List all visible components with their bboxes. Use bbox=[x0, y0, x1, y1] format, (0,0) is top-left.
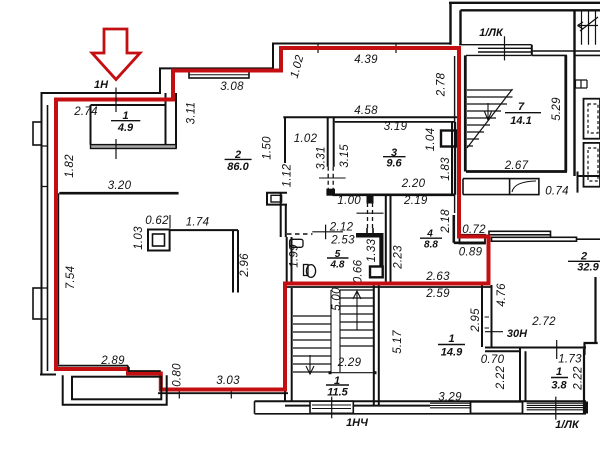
porch right 2 lines bbox=[527, 403, 583, 410]
svg-text:2.18: 2.18 bbox=[440, 209, 452, 234]
pilaster corner west of room5 bbox=[267, 193, 287, 205]
balcony parapet 32.9 bbox=[489, 231, 551, 235]
stair arrow up bbox=[353, 291, 361, 330]
svg-text:1.33: 1.33 bbox=[366, 238, 378, 262]
svg-text:7: 7 bbox=[518, 101, 525, 113]
svg-text:1.99: 1.99 bbox=[289, 244, 301, 268]
svg-text:1.04: 1.04 bbox=[425, 128, 437, 152]
tick top wall x318 bbox=[317, 43, 319, 54]
svg-text:1: 1 bbox=[448, 333, 454, 345]
porch bottom-left inner bbox=[72, 377, 161, 400]
electrical icon bbox=[576, 80, 588, 88]
tick 1NCH bbox=[331, 397, 333, 419]
svg-text:86.0: 86.0 bbox=[227, 161, 249, 173]
room 5 walls bbox=[287, 196, 391, 284]
niche walls 1.02 top middle bbox=[283, 117, 460, 163]
door cross room3 west bbox=[319, 177, 346, 179]
svg-text:1.83: 1.83 bbox=[440, 157, 452, 181]
partition from column bbox=[170, 229, 238, 231]
svg-text:32.9: 32.9 bbox=[577, 262, 599, 274]
wall under red bottom bbox=[158, 392, 288, 394]
window top wall 3.08 bbox=[189, 68, 249, 78]
room 7 stair flight bbox=[467, 90, 513, 146]
stairwell top wall under red bbox=[285, 286, 492, 288]
room 4 niche walls bbox=[454, 215, 485, 243]
stairs left flight bbox=[293, 316, 331, 372]
svg-text:7.54: 7.54 bbox=[65, 266, 77, 290]
svg-text:2.29: 2.29 bbox=[337, 357, 362, 369]
svg-text:4.9: 4.9 bbox=[117, 122, 134, 134]
room 14.9 right wall bbox=[482, 285, 492, 347]
sink room5 bbox=[290, 239, 303, 247]
LK block top walls bbox=[449, 3, 600, 45]
svg-text:1.50: 1.50 bbox=[262, 136, 274, 160]
tick top wall x396 bbox=[395, 43, 397, 54]
svg-text:1/ЛК: 1/ЛК bbox=[555, 419, 580, 431]
room 7 walls bbox=[465, 55, 567, 171]
porch bottom-left outer bbox=[63, 375, 167, 404]
svg-text:14.9: 14.9 bbox=[441, 347, 463, 359]
stairwell 1NCH walls bbox=[285, 284, 379, 407]
svg-text:2.12: 2.12 bbox=[329, 222, 354, 234]
wall outer top-left boundary bbox=[42, 44, 451, 376]
landing below room7 bbox=[463, 179, 509, 195]
svg-text:4.8: 4.8 bbox=[330, 260, 345, 271]
svg-text:1НЧ: 1НЧ bbox=[346, 417, 368, 429]
room 3 walls bbox=[328, 118, 456, 195]
svg-text:2.22: 2.22 bbox=[495, 365, 507, 390]
svg-text:1.02: 1.02 bbox=[294, 133, 318, 145]
porch right 1 bbox=[471, 402, 523, 414]
wall left pilaster 1 bbox=[33, 122, 42, 145]
room 1 walls bbox=[91, 93, 177, 149]
wall between LK and shafts bbox=[573, 10, 575, 176]
room 5 window bbox=[370, 267, 383, 278]
wall left pilaster 2 bbox=[33, 288, 42, 319]
wall right of landing bbox=[532, 45, 600, 56]
wall left inner line bbox=[47, 105, 49, 371]
svg-text:1.03: 1.03 bbox=[133, 226, 145, 250]
svg-text:0.72: 0.72 bbox=[462, 224, 486, 236]
svg-text:3.15: 3.15 bbox=[339, 144, 351, 168]
svg-text:5.00: 5.00 bbox=[331, 287, 343, 311]
svg-text:2.20: 2.20 bbox=[401, 178, 426, 190]
dim line 2.29 bbox=[330, 372, 375, 374]
tick room1 top bbox=[115, 88, 117, 113]
red unit boundary bbox=[56, 48, 489, 390]
svg-text:8.8: 8.8 bbox=[424, 240, 438, 251]
svg-text:3.31: 3.31 bbox=[316, 146, 328, 170]
svg-text:0.74: 0.74 bbox=[545, 186, 569, 198]
svg-text:30Н: 30Н bbox=[507, 328, 528, 340]
stairs right flight bbox=[340, 290, 373, 346]
svg-text:2.74: 2.74 bbox=[73, 106, 98, 118]
svg-text:3.03: 3.03 bbox=[216, 375, 240, 387]
stair hatch top right bbox=[582, 10, 596, 44]
svg-text:3.11: 3.11 bbox=[186, 102, 198, 125]
column 0.62 room 2 bbox=[148, 230, 170, 251]
svg-text:9.6: 9.6 bbox=[386, 158, 402, 170]
svg-text:1.74: 1.74 bbox=[186, 217, 210, 229]
svg-text:1.12: 1.12 bbox=[282, 163, 294, 187]
wall east of unit inner line bbox=[454, 56, 456, 213]
door with closer bbox=[510, 179, 539, 195]
svg-text:5.17: 5.17 bbox=[392, 330, 404, 354]
svg-text:3.20: 3.20 bbox=[108, 180, 132, 192]
svg-text:2.72: 2.72 bbox=[531, 316, 556, 328]
LK landing steps bbox=[459, 45, 532, 56]
svg-text:1.00: 1.00 bbox=[337, 195, 361, 207]
svg-text:2.96: 2.96 bbox=[239, 253, 251, 278]
stair arrow down bbox=[306, 355, 314, 374]
dashed balcony door bbox=[287, 233, 313, 235]
svg-text:2.95: 2.95 bbox=[470, 308, 482, 333]
toilet room5 bbox=[304, 265, 309, 276]
tick bottom x555.8 bbox=[555, 397, 557, 420]
svg-text:0.62: 0.62 bbox=[145, 215, 169, 227]
wall west inner face bbox=[58, 193, 60, 364]
shaft box 1 bbox=[584, 99, 600, 139]
svg-text:1.82: 1.82 bbox=[64, 154, 76, 178]
shaft box 2 bbox=[584, 143, 600, 187]
svg-text:0.89: 0.89 bbox=[459, 247, 483, 259]
svg-text:1/ЛК: 1/ЛК bbox=[479, 27, 504, 39]
svg-text:14.1: 14.1 bbox=[510, 115, 531, 127]
svg-text:2.19: 2.19 bbox=[403, 195, 428, 207]
svg-text:4.76: 4.76 bbox=[496, 283, 508, 307]
30N leader bbox=[485, 331, 503, 333]
svg-text:2.63: 2.63 bbox=[425, 271, 450, 283]
door cross 2.12 bbox=[357, 212, 384, 214]
wall jamb right of 1.00 bbox=[367, 196, 373, 203]
svg-text:3.8: 3.8 bbox=[551, 380, 567, 392]
stair rails bbox=[331, 290, 340, 372]
svg-text:2.78: 2.78 bbox=[436, 72, 448, 97]
wall left joint ticks bbox=[42, 146, 48, 319]
svg-text:2.67: 2.67 bbox=[504, 160, 529, 172]
svg-text:1: 1 bbox=[556, 366, 562, 378]
svg-text:4.39: 4.39 bbox=[354, 54, 378, 66]
wall corner 0.70 bbox=[485, 348, 586, 402]
svg-text:2.59: 2.59 bbox=[425, 288, 450, 300]
svg-text:0.70: 0.70 bbox=[481, 354, 505, 366]
dim cross 2.12 left bbox=[312, 225, 343, 240]
svg-text:0.80: 0.80 bbox=[172, 363, 184, 387]
room 32.9 left wall bbox=[584, 277, 598, 355]
room 1 ticks bbox=[115, 139, 117, 159]
room 3.8 right wall bbox=[583, 349, 585, 414]
svg-text:2.53: 2.53 bbox=[330, 235, 355, 247]
porch 1NCH bbox=[310, 401, 353, 413]
wall bottom-left end bbox=[40, 374, 56, 376]
room 3 window east bbox=[441, 131, 457, 147]
wall right of 0.74 bbox=[578, 172, 600, 193]
partition 2.96 bbox=[233, 230, 238, 292]
svg-text:2.23: 2.23 bbox=[393, 245, 405, 270]
svg-text:1Н: 1Н bbox=[94, 79, 109, 91]
wall west of room5 bbox=[281, 193, 286, 237]
svg-text:3.19: 3.19 bbox=[384, 121, 408, 133]
svg-text:11.5: 11.5 bbox=[327, 387, 348, 399]
svg-text:1.73: 1.73 bbox=[558, 354, 582, 366]
svg-text:2.22: 2.22 bbox=[573, 366, 585, 391]
svg-text:0.66: 0.66 bbox=[353, 259, 365, 283]
tick 3.8 top bbox=[556, 340, 558, 359]
black box under red corner bbox=[460, 235, 486, 244]
svg-text:4.58: 4.58 bbox=[354, 105, 378, 117]
svg-text:3.29: 3.29 bbox=[438, 392, 462, 404]
bottom thin lines left of porch bbox=[430, 403, 471, 408]
svg-text:3.08: 3.08 bbox=[220, 81, 244, 93]
wall step bottom-left bbox=[58, 365, 128, 367]
svg-text:5.29: 5.29 bbox=[551, 97, 563, 121]
red entrance arrow bbox=[92, 29, 140, 80]
tick LK top bbox=[504, 36, 506, 60]
wall 3.20 partition bbox=[59, 192, 178, 195]
bottom wall main bbox=[255, 401, 587, 405]
